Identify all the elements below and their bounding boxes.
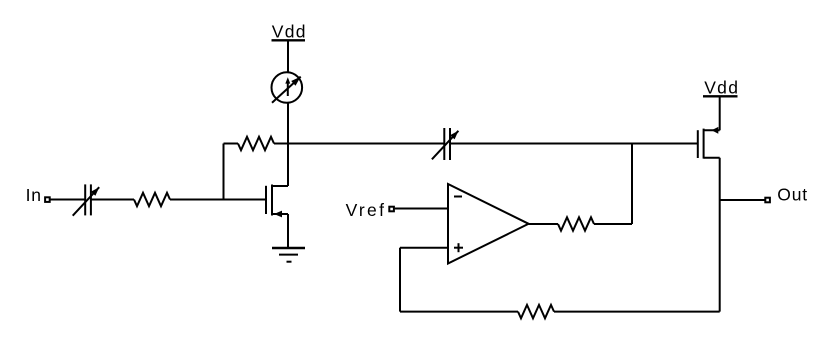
wire M2 drain down to bottom net xyxy=(719,158,721,312)
wire gate node up to R2 xyxy=(223,144,225,200)
wire M1 source to ground xyxy=(287,214,289,248)
wire C2 to junction node xyxy=(450,143,632,145)
svg-text:Vdd: Vdd xyxy=(704,78,739,98)
wire In pin to C1 xyxy=(51,199,86,201)
wire R2 to drain node xyxy=(274,143,288,145)
current source I1 (variable) xyxy=(272,72,303,103)
wire junction node to M2 gate xyxy=(632,143,697,145)
wire R2 left lead xyxy=(224,143,239,145)
resistor R3 xyxy=(558,217,594,230)
wire Vdd to I1 xyxy=(287,41,289,72)
wire U1 plus input xyxy=(400,247,448,249)
wire plus input down to bottom net xyxy=(399,248,401,312)
wire bottom net right segment xyxy=(554,311,720,313)
resistor R1 xyxy=(134,193,170,206)
transistor M1 (NMOS) xyxy=(266,185,288,218)
wire R3 to junction node xyxy=(594,223,632,225)
pin terminal Out xyxy=(765,198,770,203)
wire junction node down to R3 xyxy=(631,144,633,225)
wire U1 output to R3 xyxy=(529,223,558,225)
wire R1 to M1 gate xyxy=(170,199,265,201)
wire drain node down to M1 drain xyxy=(287,144,289,187)
svg-text:Vdd: Vdd xyxy=(272,22,307,42)
wire Out stub xyxy=(720,199,765,201)
capacitor C2 (variable) xyxy=(432,128,459,160)
capacitor C1 (variable) xyxy=(73,184,100,215)
wire drain node to C2 xyxy=(288,143,444,145)
wire I1 to drain node xyxy=(287,103,289,143)
power Vdd (left) xyxy=(272,22,307,42)
op-amp U1 xyxy=(448,184,529,264)
transistor M2 (PMOS) xyxy=(698,127,720,159)
pin terminal In xyxy=(45,197,50,202)
pin terminal Vref xyxy=(389,207,394,212)
wire Vref pin to U1 minus input xyxy=(395,208,448,210)
wire M2 source to Vdd xyxy=(719,97,721,130)
wire bottom net left segment xyxy=(400,311,518,313)
svg-text:Vref: Vref xyxy=(346,200,387,220)
power Vdd (right) xyxy=(703,78,739,98)
ground xyxy=(272,248,305,262)
resistor R4 xyxy=(518,305,554,318)
wire C1 to R1 xyxy=(91,199,134,201)
svg-text:Out: Out xyxy=(777,185,808,205)
resistor R2 xyxy=(238,137,274,150)
svg-text:In: In xyxy=(26,185,42,205)
